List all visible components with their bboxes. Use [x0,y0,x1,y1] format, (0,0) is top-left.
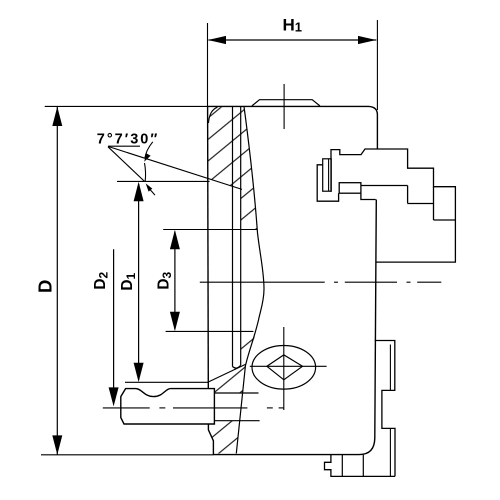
chuck body left edge [207,106,210,388]
dimension D2 line [113,249,115,403]
dimension D3 bottom arrowhead [170,312,180,331]
dimension D3 top arrowhead [170,230,180,249]
pinion square socket diamond [267,355,303,380]
section arc L1 [236,107,264,454]
bottom step inner channel upper [389,345,391,391]
angle leader curve [145,142,153,159]
dimension H1 extension line right [376,20,378,110]
top lug bottom edge [361,185,408,187]
backplate bottom strip with notch [325,455,396,476]
pinion horizontal centerline [250,365,327,367]
bottom step inner channel lower [389,428,391,476]
dimension D1 top arrowhead [134,182,144,201]
dimension D3 bottom reference line [166,330,254,332]
angle leader arrowhead [144,153,150,162]
backplate top lug outline [331,149,455,262]
angle taper line A [108,146,242,189]
svg-text:H1: H1 [283,16,303,35]
hatch section D (patch5) [208,421,239,454]
pinion ellipse [252,346,316,390]
jaw tongue bottom edge [214,420,259,422]
bottom strip divider 2 [362,455,364,477]
top lug right step bottom [408,203,434,205]
dimension H1 right arrowhead [358,36,376,44]
top lug small rect [339,183,361,194]
hatch section B (patch3) [241,332,257,369]
angle arc lower arrow tail [150,190,155,195]
chuck body top face [208,106,378,148]
dimension H1 left arrowhead [208,36,226,44]
hatch section A top [208,107,257,230]
top lug clamp inner line [328,159,330,191]
top lug left clamp rect [323,159,332,191]
angle label shelf line [108,145,140,147]
angle arc [145,163,146,181]
dimension D top arrowhead [52,107,62,126]
jaw outline [121,389,215,424]
jaw tongue top edge [214,392,258,394]
dimension D extension line top [45,105,208,107]
svg-text:D: D [35,280,56,293]
angle line B [108,147,145,182]
dimension D line [56,107,58,455]
boss centerline [283,84,285,129]
chuck body left edge lower [208,424,213,455]
jaw slot left wall [232,107,234,367]
top lug rect2 bottom [434,219,456,221]
lower guide slope line [208,364,245,382]
jaw slot bottom [233,365,241,368]
dimension D1 line [138,184,140,380]
chuck body right edge and bottom [213,200,376,455]
body front face fillet line [209,107,218,123]
dimension D2 bottom arrowhead [109,387,119,406]
top lug step to body [361,193,376,199]
top lug right step vertical [407,186,409,204]
dimension D extension line bottom [41,454,214,456]
dimension H1 extension line left [207,23,209,106]
top lug left L piece [317,165,338,201]
dimension D3 line [174,232,176,330]
hatch section C (patch4) [208,364,245,393]
jaw centerline [103,407,284,409]
bottom strip divider 1 [341,455,343,477]
dimension D1 bottom arrowhead [134,363,144,382]
dimension D1 top reference line [117,180,210,182]
dimension H1 line [209,39,377,41]
dimension D bottom arrowhead [52,435,62,454]
dimension D1 bottom reference line [125,381,208,383]
angle arc lower arrowhead [146,183,153,191]
backplate bottom step outline [375,341,395,477]
top jaw slot boss trapezoid [252,100,320,106]
pinion vertical centerline [283,327,285,410]
top lug rect2 left edge [433,187,435,220]
dimension D3 top reference line [163,229,257,231]
jaw slot right wall [240,107,242,365]
chuck axis centerline [200,281,441,283]
